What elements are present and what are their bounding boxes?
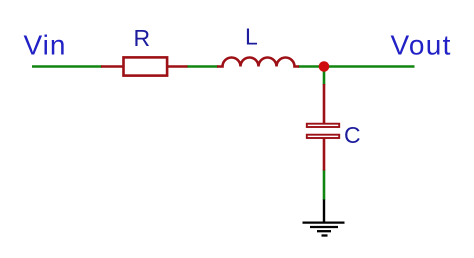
svg-text:L: L (245, 24, 258, 50)
wire: green segment from inductor to Vout (298, 65, 415, 68)
svg-text:R: R (134, 25, 151, 51)
svg-text:C: C (344, 122, 361, 148)
capacitor C (307, 84, 339, 171)
svg-text:Vout: Vout (391, 30, 452, 61)
wire: vertical green segment below node to capacitor (323, 67, 326, 86)
resistor R (101, 57, 188, 75)
svg-text:Vin: Vin (24, 30, 67, 61)
wire: green segment between resistor and inductor (187, 65, 219, 68)
node junction dot (319, 61, 330, 72)
inductor L (217, 58, 299, 67)
wire: Vin horizontal green segment (32, 65, 102, 68)
wire: vertical green segment from capacitor to ground (323, 170, 326, 201)
ground (303, 200, 345, 236)
